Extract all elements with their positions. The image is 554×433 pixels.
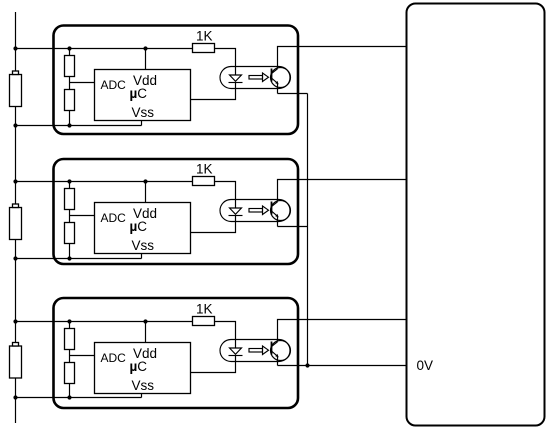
svg-text:1K: 1K xyxy=(196,29,213,44)
svg-text:0V: 0V xyxy=(417,358,434,373)
wire emitter block 1 xyxy=(277,84,279,94)
wire emitter block 2 to common xyxy=(278,226,308,228)
wire emitter block 3 xyxy=(277,357,279,366)
wire LED cathode to ADC block 3 xyxy=(191,356,236,373)
resistor divider lower block 3 xyxy=(65,363,75,384)
wire cell+ rail block 2 xyxy=(16,181,193,183)
wire Vss stub block 3 xyxy=(141,394,143,398)
svg-text:µC: µC xyxy=(130,219,148,234)
wire cell- rail block 2 xyxy=(16,258,142,260)
svg-text:µC: µC xyxy=(130,359,148,374)
wire Vdd to rail block 1 xyxy=(145,49,147,70)
svg-text:1K: 1K xyxy=(196,302,213,317)
svg-text:ADC: ADC xyxy=(101,211,127,225)
wire battery string left rail xyxy=(15,12,17,423)
junction cell- / left rail block 3 xyxy=(13,395,17,399)
junction divider top block 2 xyxy=(67,179,71,183)
svg-text:Vss: Vss xyxy=(132,105,155,120)
optocoupler phototransistor OC1 xyxy=(271,68,291,88)
wire Vdd to rail block 2 xyxy=(145,182,147,203)
wire divider chain block 2 xyxy=(69,182,71,259)
optocoupler package OC1 xyxy=(220,67,290,89)
resistor divider upper block 3 xyxy=(65,329,75,350)
junction Vdd / rail block 2 xyxy=(143,179,147,183)
junction divider bottom block 1 xyxy=(67,123,71,127)
wire emitter block 1 to common xyxy=(278,93,308,95)
wire emitter block 3 / 0V line to monitor xyxy=(278,365,407,367)
wire 1K to LED anode block 3 xyxy=(215,322,236,349)
wire cell- rail block 1 xyxy=(16,125,142,127)
wire cell+ rail block 1 xyxy=(16,48,193,50)
resistor divider upper block 2 xyxy=(65,189,75,210)
junction cell+ / left rail block 3 xyxy=(13,319,17,323)
wire LED cathode to ADC block 1 xyxy=(191,83,236,100)
wire cell- rail block 3 xyxy=(16,397,142,399)
svg-text:ADC: ADC xyxy=(101,78,127,92)
wire divider tap to ADC block 2 xyxy=(70,215,95,217)
wire divider chain block 3 xyxy=(69,322,71,398)
svg-text:1K: 1K xyxy=(196,162,213,177)
battery cell BT1 xyxy=(10,71,22,107)
resistor divider upper block 1 xyxy=(65,56,75,77)
junction divider top block 1 xyxy=(67,46,71,50)
junction divider bottom block 3 xyxy=(67,395,71,399)
resistor divider lower block 1 xyxy=(65,90,75,111)
wire LED cathode to ADC block 2 xyxy=(191,216,236,233)
resistor divider lower block 2 xyxy=(65,223,75,244)
ADC microcontroller U1 xyxy=(95,70,191,121)
ADC microcontroller U2 xyxy=(95,203,191,254)
junction divider bottom block 2 xyxy=(67,256,71,260)
junction cell- / left rail block 2 xyxy=(13,256,17,260)
wire Vdd to rail block 3 xyxy=(145,322,147,343)
junction cell+ / left rail block 1 xyxy=(13,46,17,50)
wire cell+ rail block 3 xyxy=(16,321,193,323)
monitoring unit box xyxy=(407,4,545,426)
battery cell BT3 xyxy=(10,343,22,379)
junction Vdd / rail block 1 xyxy=(143,46,147,50)
svg-text:µC: µC xyxy=(130,86,148,101)
wire emitter block 2 xyxy=(277,217,279,227)
optocoupler light arrow OC1 xyxy=(249,73,269,82)
optocoupler light arrow OC3 xyxy=(249,346,269,355)
optocoupler LED OC3 xyxy=(229,348,243,356)
junction Vdd / rail block 3 xyxy=(143,319,147,323)
module enclosure 3 xyxy=(54,298,299,408)
wire divider chain block 1 xyxy=(69,49,71,126)
resistor 1K block 1 xyxy=(193,44,215,53)
wire collector to monitor block 3 xyxy=(278,320,407,342)
optocoupler LED OC2 xyxy=(229,208,243,216)
junction cell+ / left rail block 2 xyxy=(13,179,17,183)
junction cell- / left rail block 1 xyxy=(13,123,17,127)
svg-text:Vss: Vss xyxy=(132,378,155,393)
junction emitter common / 0V xyxy=(305,363,309,367)
optocoupler phototransistor OC2 xyxy=(271,201,291,221)
optocoupler package OC2 xyxy=(220,200,290,222)
optocoupler LED OC1 xyxy=(229,75,243,83)
resistor 1K block 3 xyxy=(193,317,215,326)
junction divider top block 3 xyxy=(67,319,71,323)
wire 1K to LED anode block 2 xyxy=(215,182,236,209)
wire Vss stub block 1 xyxy=(141,121,143,126)
wire divider tap to ADC block 3 xyxy=(70,355,95,357)
wire collector to monitor block 2 xyxy=(278,180,407,202)
svg-text:ADC: ADC xyxy=(101,351,127,365)
wire Vss stub block 2 xyxy=(141,254,143,259)
optocoupler light arrow OC2 xyxy=(249,206,269,215)
wire divider tap to ADC block 1 xyxy=(70,82,95,84)
wire emitter common vertical xyxy=(307,94,309,366)
resistor 1K block 2 xyxy=(193,177,215,186)
optocoupler package OC3 xyxy=(220,340,290,362)
battery cell BT2 xyxy=(10,204,22,240)
ADC microcontroller U3 xyxy=(95,343,191,394)
module enclosure 2 xyxy=(54,159,299,264)
svg-text:Vss: Vss xyxy=(132,238,155,253)
module enclosure 1 xyxy=(54,26,299,135)
optocoupler phototransistor OC3 xyxy=(271,341,291,361)
wire collector to monitor block 1 xyxy=(278,47,407,69)
wire 1K to LED anode block 1 xyxy=(215,49,236,76)
